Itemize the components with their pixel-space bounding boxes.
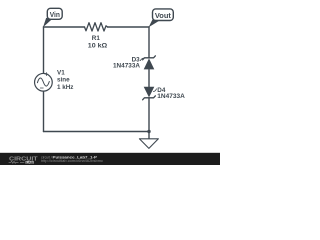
svg-text:Vout: Vout xyxy=(155,13,172,20)
V1 plus sign xyxy=(45,73,48,76)
svg-text:sine: sine xyxy=(57,77,70,84)
node Vout bubble xyxy=(153,9,174,21)
Vout bubble tail xyxy=(149,19,160,28)
Vin bubble tail xyxy=(43,18,52,27)
diode D4 triangle xyxy=(144,87,155,98)
diode D3 triangle xyxy=(144,58,155,69)
wire ground stub xyxy=(148,132,150,139)
V1 minus sign xyxy=(40,87,43,89)
watermark bar xyxy=(0,153,220,165)
wire left vertical lower xyxy=(43,91,45,131)
voltage source V1 xyxy=(35,73,53,91)
wire right vertical lower xyxy=(148,98,150,132)
zener D4 cathode bar xyxy=(143,96,156,100)
svg-text:1 kHz: 1 kHz xyxy=(57,84,73,91)
wire left vertical upper xyxy=(43,27,45,74)
svg-text:http://circuitlab.com/c6rw462b: http://circuitlab.com/c6rw462bsbmc xyxy=(41,159,104,163)
svg-text:10 kΩ: 10 kΩ xyxy=(88,43,108,50)
node Vin bubble xyxy=(47,8,62,19)
junction dot ground node xyxy=(147,130,150,133)
ground xyxy=(139,139,158,149)
D3 label leader xyxy=(140,58,144,60)
svg-text:LAB: LAB xyxy=(26,160,33,164)
wire right vertical upper xyxy=(148,27,150,58)
svg-text:1N4733A: 1N4733A xyxy=(157,93,185,100)
svg-text:1N4733A: 1N4733A xyxy=(113,63,140,70)
svg-text:R1: R1 xyxy=(92,35,101,42)
D4 label leader xyxy=(153,89,156,92)
V1 sine squiggle xyxy=(37,78,49,86)
resistor R1 xyxy=(85,23,108,31)
svg-text:Vin: Vin xyxy=(50,12,60,19)
wire top right segment xyxy=(108,26,150,28)
wire bottom horizontal xyxy=(44,131,150,133)
wire top left segment xyxy=(44,26,85,28)
wire between D3 and D4 xyxy=(148,69,150,86)
zener D3 cathode bar xyxy=(143,56,156,60)
